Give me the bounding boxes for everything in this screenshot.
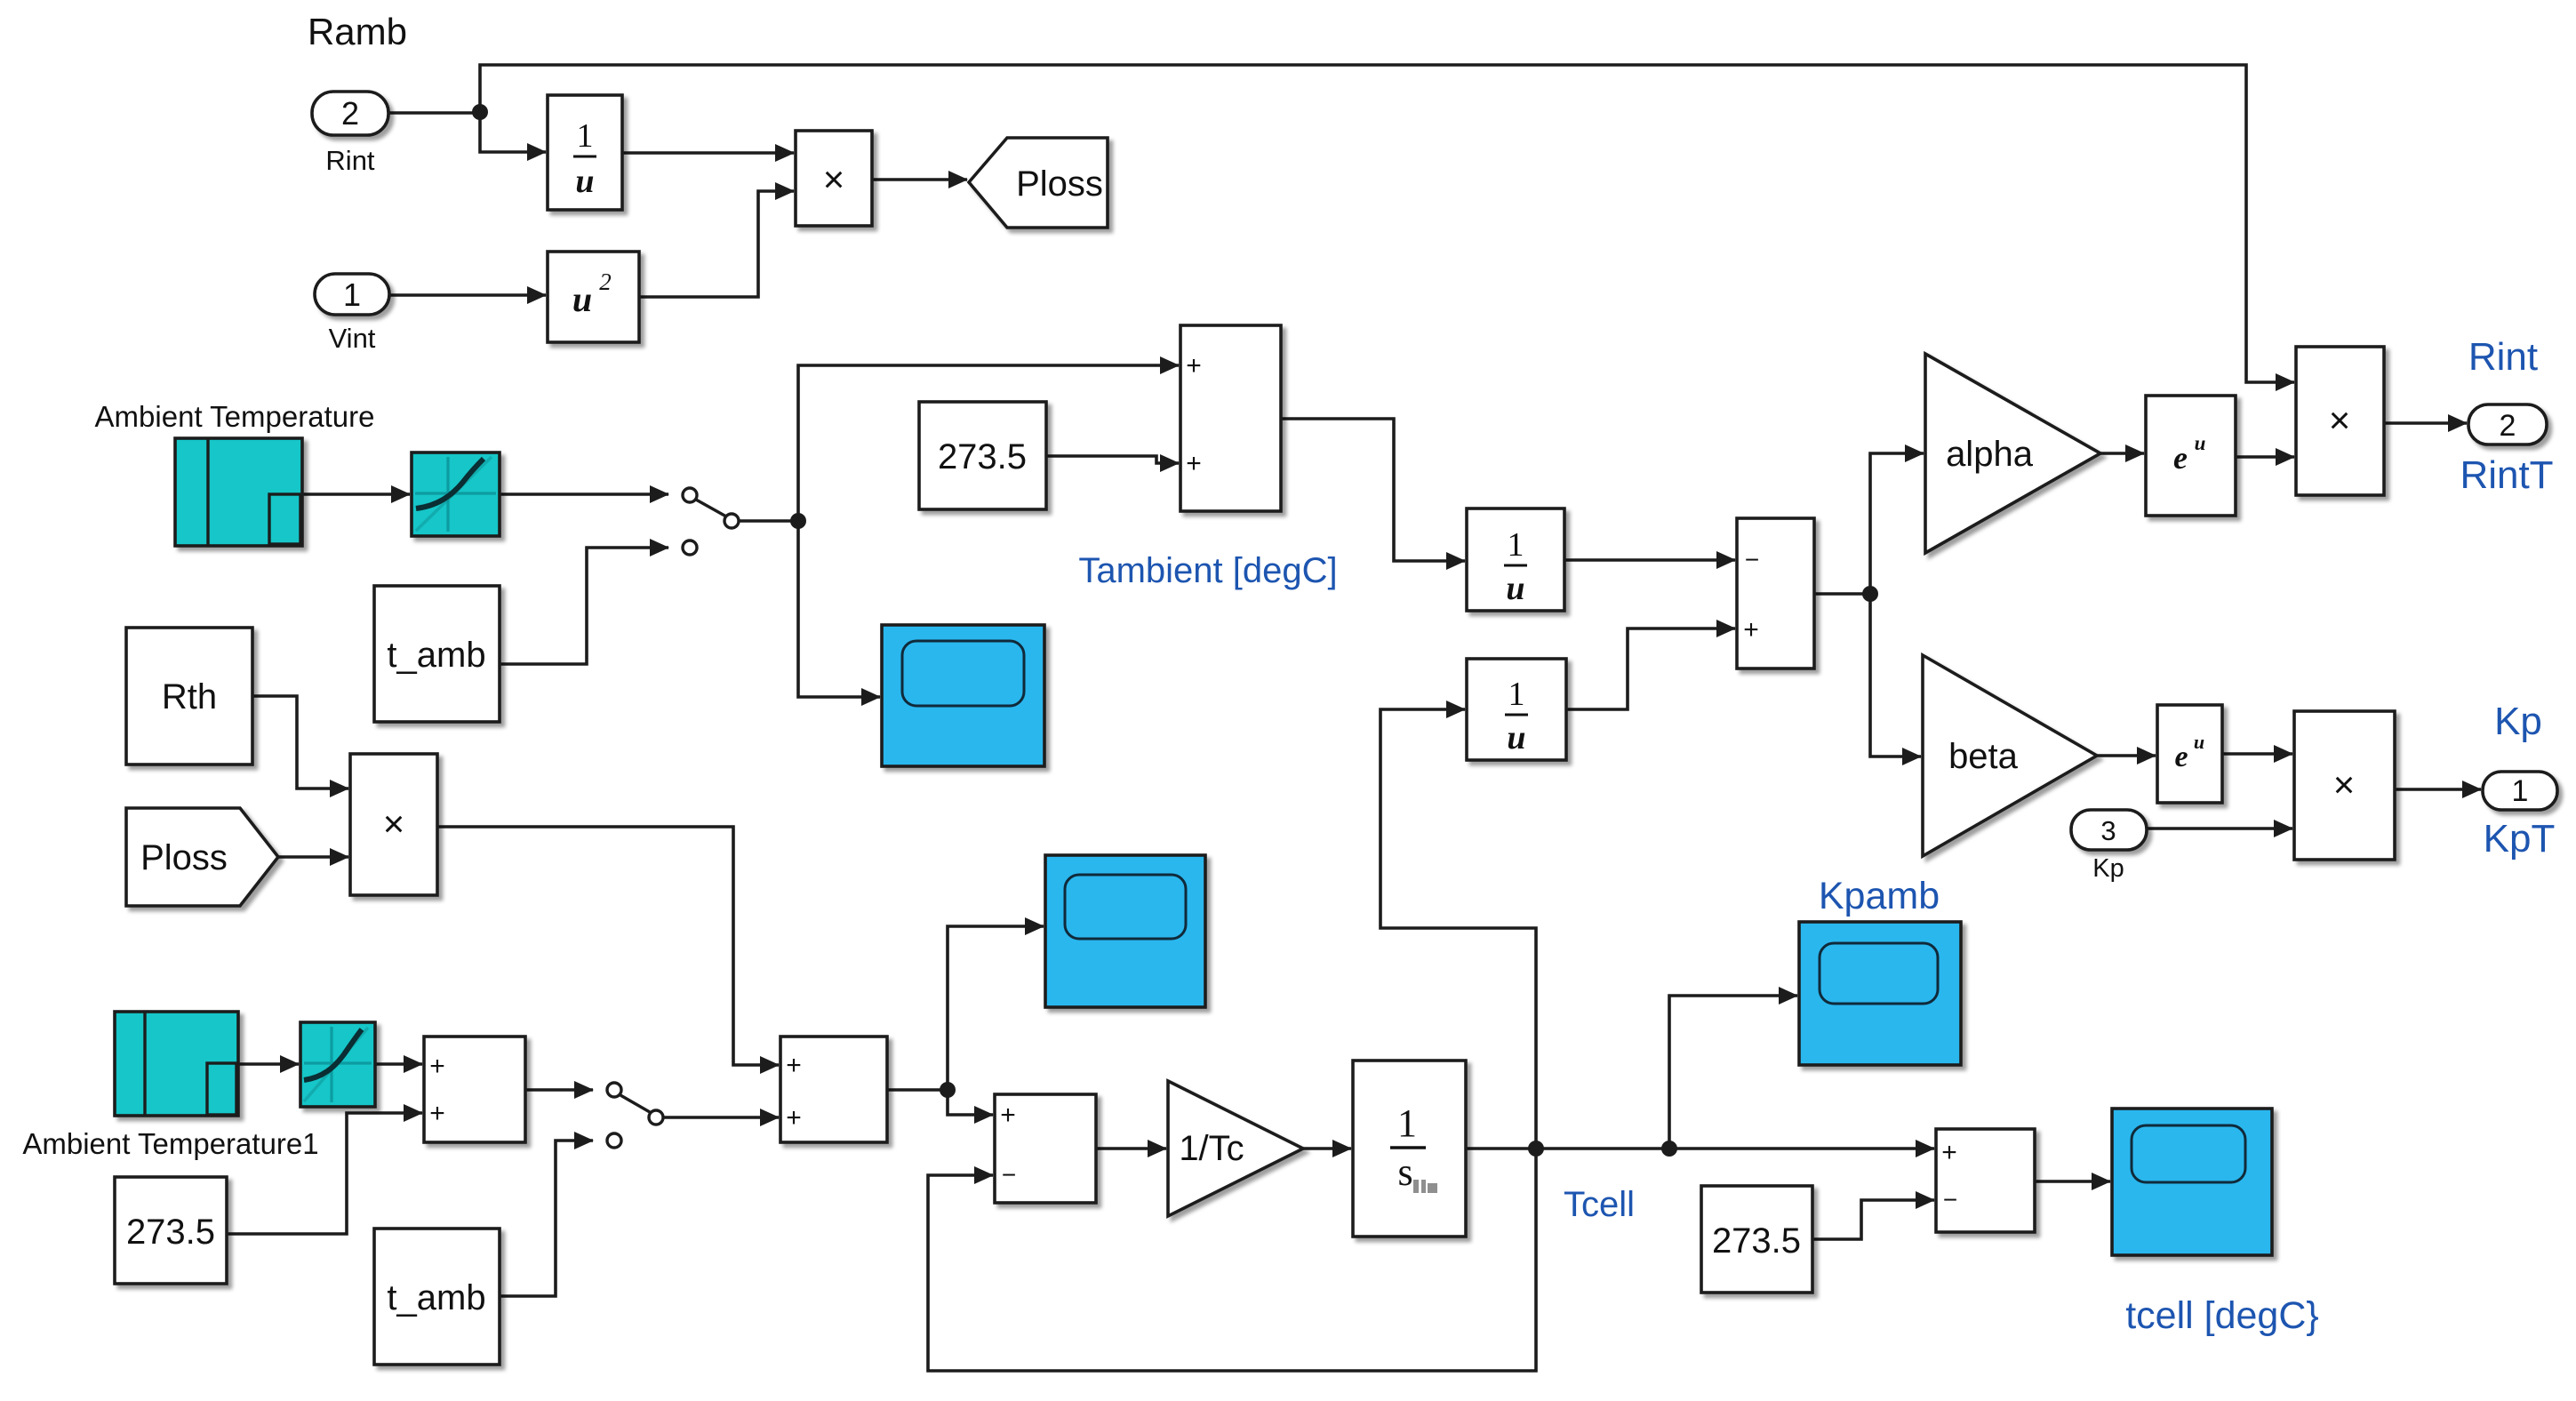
svg-text:tcell [degC}: tcell [degC} xyxy=(2125,1294,2319,1337)
signal source Ambient Temperature1 xyxy=(115,1012,238,1116)
svg-text:+: + xyxy=(1186,449,1202,478)
svg-text:e: e xyxy=(2173,440,2188,476)
svg-text:alpha: alpha xyxy=(1946,435,2034,474)
svg-text:1/Tc: 1/Tc xyxy=(1179,1129,1244,1168)
svg-text:e: e xyxy=(2174,741,2188,773)
svg-text:Ploss: Ploss xyxy=(1016,164,1103,204)
gain alpha xyxy=(1925,354,2100,553)
svg-text:Kp: Kp xyxy=(2092,854,2124,883)
svg-text:+: + xyxy=(429,1099,445,1128)
wire switch2 common out to sum2 lower port xyxy=(663,1116,779,1119)
reciprocal 1/u Tamb xyxy=(1467,508,1564,611)
wire branch down into beta gain xyxy=(1870,594,1921,757)
constant 273.5 top xyxy=(919,402,1046,509)
manual switch 2 xyxy=(607,1083,663,1148)
wire exp2 out to product KpT upper port xyxy=(2222,752,2292,756)
wire Vint inport to u^2 xyxy=(389,293,546,297)
wire constant 273.5 to sum1 input 2 xyxy=(227,1113,422,1234)
scope Tambient xyxy=(882,625,1044,766)
wire subtract out to branch xyxy=(1814,592,1870,596)
svg-text:Ambient Temperature: Ambient Temperature xyxy=(95,400,375,433)
svg-text:−: − xyxy=(1943,1186,1957,1213)
svg-text:beta: beta xyxy=(1948,737,2019,776)
integrator 1/s xyxy=(1353,1061,1466,1237)
svg-text:u: u xyxy=(2194,731,2204,753)
junction dot Tcell 1 xyxy=(1528,1141,1544,1157)
junction dot sum2 out xyxy=(940,1082,956,1098)
wire subtract3 out to 1/Tc gain xyxy=(1096,1147,1166,1150)
block t_amb xyxy=(374,586,500,722)
wire t_amb out to switch lower throw xyxy=(500,548,668,664)
wire 1/u Tamb to subtract minus xyxy=(1564,558,1735,562)
svg-text:×: × xyxy=(823,158,845,200)
gain 1/Tc xyxy=(1168,1081,1303,1216)
wire branch up to scope xyxy=(948,926,1044,1090)
svg-text:Kp: Kp xyxy=(2494,700,2542,743)
junction dot Tambient xyxy=(790,513,806,529)
svg-text:u: u xyxy=(572,279,592,319)
svg-text:Ploss: Ploss xyxy=(140,838,228,877)
wire 1/u Tcell to subtract plus xyxy=(1566,628,1735,709)
wire junction up to sum input 1 xyxy=(798,365,1179,521)
svg-text:2: 2 xyxy=(599,268,612,295)
wire u^2 out to product bottom port xyxy=(639,191,794,297)
wire exp out to product RintT lower port xyxy=(2236,455,2294,459)
product Rth x Ploss xyxy=(350,754,437,895)
wire product Rth x Ploss out to sum2 top port xyxy=(437,827,779,1065)
subtract block 3 xyxy=(995,1094,1096,1203)
svg-text:t_amb: t_amb xyxy=(387,1278,485,1317)
svg-text:u: u xyxy=(1506,570,1524,607)
wire constant 273.5c to subtract4 minus xyxy=(1812,1200,1934,1239)
wire Kp inport to product KpT lower port xyxy=(2147,827,2292,830)
svg-text:Kpamb: Kpamb xyxy=(1819,875,1940,917)
sum block Tambient xyxy=(1180,325,1281,511)
goto tag Ploss xyxy=(969,138,1108,228)
svg-text:Rint: Rint xyxy=(325,145,375,176)
svg-text:t_amb: t_amb xyxy=(387,636,485,675)
exp block e^u alpha xyxy=(2146,396,2236,516)
svg-text:Vint: Vint xyxy=(329,323,376,354)
svg-text:Rint: Rint xyxy=(2468,335,2538,379)
svg-text:273.5: 273.5 xyxy=(938,437,1027,476)
wire 1/Tc out to integrator xyxy=(1303,1147,1351,1150)
wire branch down to subtract3 plus xyxy=(948,1090,993,1115)
wire sum out down to 1/u Tamb xyxy=(1281,419,1465,561)
svg-text:−: − xyxy=(1002,1161,1016,1189)
wire Rint inport to junction xyxy=(389,111,480,115)
svg-text:+: + xyxy=(786,1051,802,1080)
junction dot Ramb xyxy=(472,104,488,120)
scope tcell xyxy=(2112,1109,2272,1255)
wire branch up into alpha gain xyxy=(1870,453,1924,594)
svg-text:+: + xyxy=(1186,351,1202,380)
product KpT xyxy=(2294,711,2395,860)
wire lookup out to switch upper throw xyxy=(500,492,668,496)
wire 1/u out to product top port xyxy=(622,151,794,155)
svg-text:1: 1 xyxy=(343,276,361,313)
svg-text:×: × xyxy=(383,803,405,845)
block t_amb 2 xyxy=(374,1229,500,1365)
svg-text:1: 1 xyxy=(577,117,594,155)
svg-text:1: 1 xyxy=(1397,1101,1417,1145)
outport 1 KpT xyxy=(2483,772,2557,810)
lookup table block xyxy=(412,452,500,536)
inport 1 Vint xyxy=(315,274,389,354)
svg-text:×: × xyxy=(2329,399,2351,441)
svg-text:s: s xyxy=(1397,1150,1412,1194)
subtract block 4 xyxy=(1936,1129,2035,1232)
wire sum1 out to switch2 upper throw xyxy=(525,1088,593,1092)
wire signal source 2 to lookup table 2 xyxy=(238,1062,299,1066)
svg-text:+: + xyxy=(1743,615,1759,644)
svg-text:u: u xyxy=(575,163,594,200)
inport 2 Rint xyxy=(312,92,388,176)
wire product out to Ploss goto xyxy=(872,178,967,181)
svg-text:273.5: 273.5 xyxy=(1712,1221,1801,1261)
wire signal source to lookup table xyxy=(302,492,410,496)
product RintT xyxy=(2296,347,2384,495)
wire beta out to exp2 xyxy=(2097,754,2156,757)
wire subtract4 out to tcell scope xyxy=(2035,1180,2110,1183)
wire switch common out to junction xyxy=(739,519,798,523)
wire constant 273.5 to sum input 2 xyxy=(1046,456,1179,463)
svg-text:u: u xyxy=(2195,432,2206,454)
scope Kpamb xyxy=(1799,922,1961,1065)
exp block e^u beta xyxy=(2157,705,2222,803)
sum block 1 bottom xyxy=(424,1037,525,1142)
wire alpha out to exp xyxy=(2100,452,2144,455)
wire product KpT out to outport xyxy=(2395,788,2481,791)
constant 273.5 bottom right xyxy=(1701,1186,1812,1293)
svg-text:1: 1 xyxy=(1508,676,1525,713)
wire Tcell branch up to Kpamb scope xyxy=(1669,996,1797,1149)
product Ploss xyxy=(796,131,872,226)
svg-text:273.5: 273.5 xyxy=(126,1213,215,1252)
svg-text:+: + xyxy=(786,1103,802,1133)
subtract block alpha beta xyxy=(1737,518,1814,668)
wire Rth out to product Rth x Ploss xyxy=(252,696,348,789)
svg-text:KpT: KpT xyxy=(2484,817,2556,861)
svg-text:1: 1 xyxy=(1508,526,1524,564)
sum block 2 bottom xyxy=(780,1037,887,1142)
square block u^2 xyxy=(548,252,639,342)
outport 2 RintT xyxy=(2468,404,2547,444)
constant 273.5 bottom left xyxy=(115,1177,227,1284)
wire lookup2 to sum1 input 1 xyxy=(375,1062,422,1066)
wire feedback Tcell to subtract3 minus xyxy=(928,1149,1536,1371)
svg-text:Tcell: Tcell xyxy=(1564,1185,1635,1224)
scope Tcell mid xyxy=(1045,855,1205,1007)
svg-text:Rth: Rth xyxy=(162,677,217,717)
inport 3 Kp xyxy=(2071,810,2147,883)
svg-text:Ramb: Ramb xyxy=(308,11,407,52)
wire product out to outport RintT xyxy=(2384,421,2467,425)
svg-text:×: × xyxy=(2333,764,2356,805)
svg-text:−: − xyxy=(1745,546,1759,573)
from tag Ploss xyxy=(126,808,278,906)
wire junction down into 1/u xyxy=(480,112,546,152)
svg-text:3: 3 xyxy=(2100,815,2116,846)
reciprocal 1/u Tcell xyxy=(1467,659,1566,760)
svg-text:1: 1 xyxy=(2512,774,2529,808)
wire Tcell up to 1/u Tcell xyxy=(1380,709,1536,1149)
wire junction down to Tambient scope xyxy=(798,521,880,697)
wire Ramb top run to product RintT xyxy=(480,65,2294,382)
svg-text:+: + xyxy=(1941,1138,1957,1167)
svg-text:u: u xyxy=(1507,719,1525,757)
svg-text:+: + xyxy=(429,1052,445,1081)
wire integrator out Tcell run to subtract4 plus xyxy=(1466,1147,1934,1150)
svg-text:Tambient [degC]: Tambient [degC] xyxy=(1078,551,1337,590)
wire sum2 out to branch xyxy=(887,1088,948,1092)
junction dot alpha beta xyxy=(1862,586,1878,602)
block Rth xyxy=(126,628,252,765)
lookup table block 2 xyxy=(300,1022,375,1107)
signal source Ambient Temperature xyxy=(175,438,302,546)
wire Ploss from-tag to product xyxy=(278,855,348,859)
svg-text:Ambient Temperature1: Ambient Temperature1 xyxy=(22,1127,318,1160)
wire t_amb2 out to switch2 lower throw xyxy=(500,1141,593,1296)
svg-text:2: 2 xyxy=(2500,409,2516,443)
reciprocal block 1/u xyxy=(548,95,622,210)
svg-text:2: 2 xyxy=(341,95,359,132)
manual switch 1 xyxy=(683,488,739,555)
junction dot Tcell 2 xyxy=(1661,1141,1677,1157)
gain beta xyxy=(1923,655,2097,856)
svg-text:RintT: RintT xyxy=(2460,453,2553,497)
svg-text:+: + xyxy=(1000,1101,1016,1130)
